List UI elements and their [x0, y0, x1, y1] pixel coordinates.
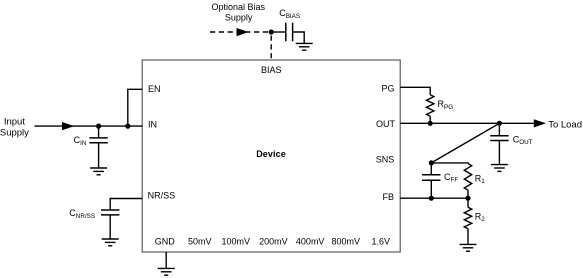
ground (GND pin) [158, 268, 175, 275]
svg-text:1.6V: 1.6V [372, 236, 391, 246]
wire OUT to load with arrow [400, 119, 546, 127]
wire R2 to ground [467, 229, 469, 245]
ground (CNR/SS) [102, 239, 119, 246]
wire GND pin to ground [165, 252, 167, 268]
svg-text:BIAS: BIAS [261, 65, 282, 75]
node bias junction [269, 29, 274, 34]
node RPG/OUT junction [428, 121, 433, 126]
node EN junction [125, 124, 130, 129]
svg-text:Supply: Supply [0, 128, 29, 139]
svg-text:To Load: To Load [548, 120, 582, 131]
svg-text:400mV: 400mV [296, 236, 325, 246]
svg-text:800mV: 800mV [332, 236, 361, 246]
wire PG to RPG [400, 87, 430, 95]
wire input supply to IN with arrow [35, 122, 143, 130]
resistor R2 [467, 198, 469, 207]
ground (COUT) [491, 165, 508, 172]
svg-text:EN: EN [148, 84, 161, 94]
wire RPG to OUT [429, 116, 431, 123]
svg-text:Device: Device [256, 149, 286, 159]
wire R1 to FB [467, 190, 469, 198]
svg-text:Supply: Supply [225, 13, 253, 23]
svg-text:IN: IN [148, 119, 157, 129]
wire dashed bias to BIAS pin [270, 36, 272, 61]
wire EN stub [128, 89, 142, 126]
svg-text:200mV: 200mV [259, 236, 288, 246]
node CIN junction [96, 124, 101, 129]
capacitor CNR/SS [101, 210, 119, 239]
wire dashed bias supply with arrow [210, 28, 271, 36]
node COUT junction [497, 121, 502, 126]
ground (R2) [460, 244, 477, 251]
capacitor CFF [422, 163, 440, 198]
svg-text:50mV: 50mV [188, 236, 212, 246]
capacitor COUT [490, 123, 508, 164]
device box U1 [142, 60, 400, 252]
label Optional Bias Supply [212, 2, 266, 23]
svg-text:FB: FB [382, 192, 394, 202]
resistor RPG [427, 95, 434, 116]
label Input Supply [0, 117, 29, 139]
ground (bias) [296, 43, 313, 50]
svg-text:NR/SS: NR/SS [148, 191, 176, 201]
resistor R1 [464, 164, 471, 191]
ground (CIN) [90, 168, 107, 175]
wire node to R1 [431, 162, 468, 165]
wire SNS diagonal to OUT node [431, 123, 499, 163]
capacitor CIN [89, 126, 107, 168]
wire FB line [400, 197, 468, 199]
capacitor CBIAS [271, 23, 304, 44]
svg-text:Input: Input [4, 117, 25, 128]
svg-text:SNS: SNS [376, 155, 395, 165]
svg-text:Optional Bias: Optional Bias [212, 2, 266, 12]
wire NR/SS stub [110, 199, 142, 211]
node SNS junction [429, 160, 434, 165]
svg-text:GND: GND [155, 236, 176, 246]
svg-text:OUT: OUT [376, 119, 396, 129]
svg-text:PG: PG [381, 83, 394, 93]
svg-text:100mV: 100mV [222, 236, 251, 246]
node CFF/FB junction [429, 196, 434, 201]
node R1/R2/FB junction [465, 196, 470, 201]
